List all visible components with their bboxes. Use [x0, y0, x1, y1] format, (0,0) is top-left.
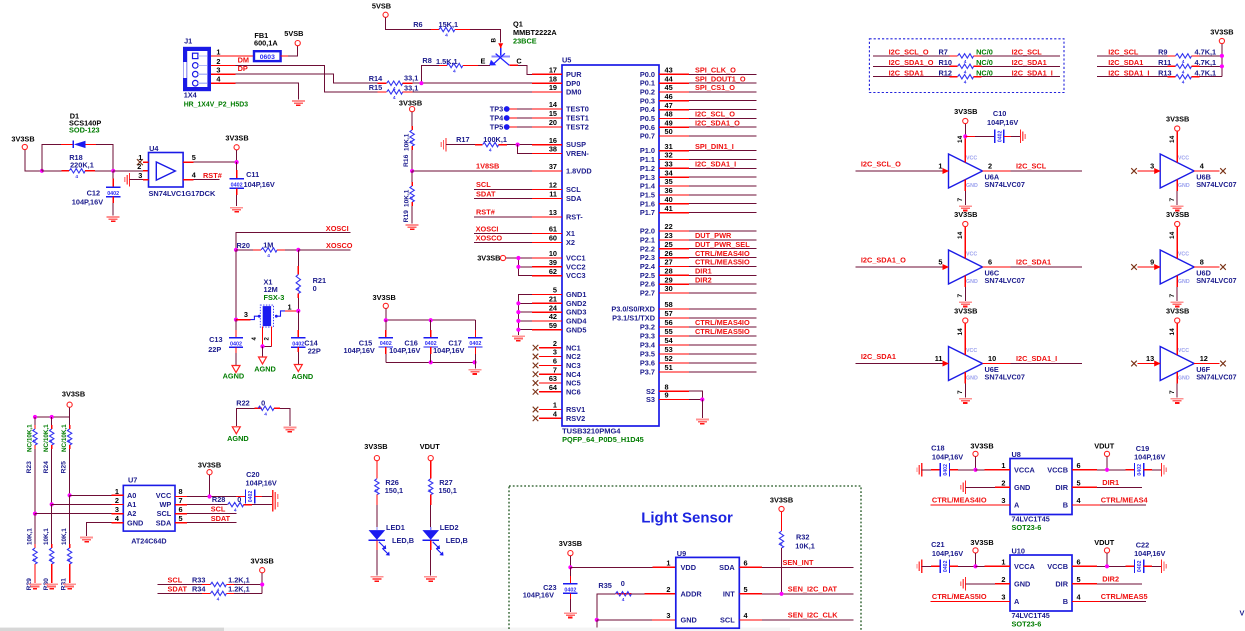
svg-text:R15: R15: [369, 83, 382, 92]
svg-text:R16: R16: [403, 154, 410, 167]
resistor R21: [297, 250, 299, 266]
svg-text:0402: 0402: [1137, 464, 1143, 476]
svg-text:CTRL/MEAS4IO: CTRL/MEAS4IO: [932, 496, 987, 505]
svg-text:R35: R35: [598, 581, 611, 590]
svg-text:LED1: LED1: [386, 523, 405, 532]
svg-text:11: 11: [549, 190, 557, 199]
wire crystal pin1: [285, 310, 298, 312]
junction C17 bottom: [473, 360, 477, 364]
junction R23: [33, 511, 37, 515]
svg-text:P3.0/S0/RXD: P3.0/S0/RXD: [611, 305, 655, 314]
svg-text:3: 3: [216, 66, 220, 75]
wire A1 row: [52, 503, 112, 505]
power 3V3SB at R33: [260, 568, 265, 573]
junction U7 VCC: [207, 494, 211, 498]
svg-text:10K,1: 10K,1: [61, 528, 68, 545]
svg-text:59: 59: [549, 321, 557, 330]
svg-text:3V3SB: 3V3SB: [770, 495, 793, 504]
svg-text:TEST0: TEST0: [566, 105, 589, 114]
svg-text:5: 5: [744, 585, 748, 594]
U6D VCC pin 14 wire: [1176, 227, 1178, 259]
power 3V3SB at C11: [234, 145, 239, 150]
wire 3V3SB to R16: [411, 112, 413, 126]
wire U8 A pin net CTRL/MEAS4IO: [930, 504, 1010, 506]
resistor R35: [617, 593, 632, 595]
svg-text:R34: R34: [192, 584, 206, 593]
wire TP5 to chip: [510, 126, 517, 128]
svg-text:0402: 0402: [1137, 560, 1143, 572]
svg-text:U5: U5: [562, 55, 571, 64]
svg-text:4: 4: [267, 253, 270, 259]
resistor R31: [69, 495, 71, 544]
wire R6 to Q1 base: [455, 29, 470, 31]
svg-text:11: 11: [935, 354, 943, 363]
svg-text:P1.6: P1.6: [640, 199, 655, 208]
svg-text:33: 33: [665, 160, 673, 169]
resistor R18: [42, 170, 62, 172]
svg-text:6: 6: [553, 357, 557, 366]
svg-text:C13: C13: [209, 335, 222, 344]
scrollbar thumb: [0, 628, 224, 631]
junction GND4: [516, 319, 520, 323]
svg-text:0402: 0402: [469, 341, 481, 347]
svg-text:0402: 0402: [564, 588, 576, 594]
svg-text:P0.1: P0.1: [640, 79, 655, 88]
svg-text:C11: C11: [246, 170, 259, 179]
svg-text:DIR2: DIR2: [695, 275, 712, 284]
ground at R31: [63, 583, 76, 585]
wire U9 VDD row: [570, 566, 652, 568]
svg-text:25: 25: [665, 240, 673, 249]
svg-text:23: 23: [665, 231, 673, 240]
svg-text:13: 13: [549, 208, 557, 217]
svg-text:TUSB3210PMG4: TUSB3210PMG4: [562, 426, 621, 435]
wire U10 GND pin: [966, 583, 996, 585]
resistor R23: [34, 417, 36, 425]
svg-text:3: 3: [553, 348, 557, 357]
svg-text:0603: 0603: [260, 54, 275, 61]
svg-text:TP3: TP3: [490, 104, 503, 113]
svg-text:P3.7: P3.7: [640, 368, 655, 377]
svg-text:5: 5: [192, 153, 196, 162]
svg-text:41: 41: [665, 204, 673, 213]
wire junction to VREN-: [518, 145, 532, 154]
svg-text:49: 49: [665, 118, 673, 127]
svg-text:P2.7: P2.7: [640, 289, 655, 298]
wire 3V3SB to R18 junction: [25, 150, 42, 171]
svg-text:10K,1: 10K,1: [43, 528, 50, 545]
no-connect NC4: [533, 371, 539, 377]
svg-text:2: 2: [115, 496, 119, 505]
svg-text:14: 14: [957, 135, 964, 143]
svg-text:VDUT: VDUT: [1094, 442, 1115, 451]
svg-text:1: 1: [553, 401, 557, 410]
resistor R10: [873, 65, 950, 67]
wire 5VSB to R6: [386, 18, 431, 30]
resistor R28: [175, 504, 187, 506]
svg-text:RSV1: RSV1: [566, 405, 585, 414]
wire ground to R17: [446, 144, 475, 146]
svg-text:3V3SB: 3V3SB: [1166, 115, 1189, 124]
IC U10 body: [1010, 555, 1072, 611]
resistor R8: [447, 63, 463, 67]
power 3V3SB at U6C: [963, 221, 968, 226]
svg-text:0402: 0402: [292, 341, 304, 347]
ground sideways at C19: [1161, 463, 1163, 476]
U6A VCC pin 14 wire: [964, 136, 966, 162]
wire U7 SCL row: [175, 513, 187, 515]
resistor R17: [483, 142, 499, 146]
capacitor C12: [106, 186, 120, 188]
svg-text:4.7K,1: 4.7K,1: [1195, 68, 1217, 77]
LED LED2: [430, 527, 432, 530]
junction VCC1: [516, 256, 520, 260]
wire U6A input: [855, 170, 942, 172]
svg-text:SN74LVC07: SN74LVC07: [1196, 372, 1236, 381]
svg-text:P1.7: P1.7: [640, 208, 655, 217]
svg-text:NC3: NC3: [566, 361, 581, 370]
svg-text:51: 51: [665, 363, 673, 372]
svg-text:15: 15: [549, 109, 557, 118]
svg-text:3V3SB: 3V3SB: [970, 538, 993, 547]
ground at U6D: [1171, 301, 1184, 303]
junction C16 bottom: [429, 360, 433, 364]
svg-text:4: 4: [428, 489, 434, 492]
resistor R32: [781, 512, 783, 531]
wire R16 to junction: [411, 146, 413, 150]
svg-text:10K,1: 10K,1: [403, 133, 410, 151]
svg-text:P0.3: P0.3: [640, 96, 655, 105]
wire LED2 to ground: [430, 540, 432, 550]
svg-text:63: 63: [549, 374, 557, 383]
capacitor C14: [297, 311, 299, 330]
svg-text:4: 4: [295, 288, 301, 291]
svg-text:I2C_SDA1_I: I2C_SDA1_I: [1016, 354, 1057, 363]
capacitor C18: [922, 469, 932, 471]
svg-text:VCC3: VCC3: [566, 271, 586, 280]
svg-text:RSV2: RSV2: [566, 414, 585, 423]
svg-text:I2C_SDA1_I: I2C_SDA1_I: [695, 160, 736, 169]
no-connect NC3: [533, 363, 539, 369]
svg-text:4: 4: [264, 411, 267, 417]
U6E VCC pin 14 wire: [964, 323, 966, 355]
wire A2 row: [35, 513, 111, 515]
junction GND2: [516, 301, 520, 305]
svg-text:26: 26: [665, 249, 673, 258]
svg-text:10: 10: [988, 354, 996, 363]
svg-text:150,1: 150,1: [439, 486, 457, 495]
junction R23 top: [33, 415, 37, 419]
U5 right pins wires and labels: [659, 73, 689, 75]
svg-text:C22: C22: [1136, 541, 1149, 550]
svg-text:R9: R9: [1158, 48, 1167, 57]
ground at GND pins: [512, 335, 525, 337]
wire U8 B net CTRL/MEAS4: [1072, 504, 1100, 506]
wire XOSCO to chip: [474, 242, 532, 244]
junction R20 left: [234, 248, 238, 252]
resistor R22: [236, 408, 254, 426]
svg-text:R22: R22: [236, 398, 249, 407]
svg-text:SDA: SDA: [719, 563, 735, 572]
ferrite bead FB1: [254, 51, 281, 61]
ground sideways at U8 GND: [965, 481, 967, 494]
wire XOSCI to chip: [474, 233, 532, 235]
svg-text:XOSCI: XOSCI: [326, 224, 349, 233]
junction GND5: [516, 328, 520, 332]
ground sideways at U10 GND: [965, 577, 967, 590]
wire crystal pin3: [236, 319, 250, 321]
junction R32 SEN_I2C_DAT: [779, 592, 783, 596]
op-amp buffer U6B: [1160, 154, 1194, 188]
svg-text:R33: R33: [192, 576, 205, 585]
svg-text:R14: R14: [369, 74, 383, 83]
resistor R34: [157, 592, 202, 594]
wire bypass cap rail bottom: [386, 361, 476, 363]
svg-text:SOD-123: SOD-123: [69, 125, 100, 134]
svg-text:I2C_SDA1_O: I2C_SDA1_O: [889, 58, 934, 67]
junction C15 top: [384, 318, 388, 322]
wire junction to U4 pin2: [113, 170, 143, 172]
ground at R22: [283, 427, 296, 429]
svg-text:P2.0: P2.0: [640, 227, 655, 236]
power 3V3SB at U6F: [1175, 318, 1180, 323]
svg-text:C12: C12: [87, 188, 100, 197]
svg-text:P2.1: P2.1: [640, 236, 655, 245]
svg-text:P3.6: P3.6: [640, 359, 655, 368]
svg-text:38: 38: [549, 145, 557, 154]
svg-text:0: 0: [621, 579, 625, 588]
svg-text:CTRL/MEAS5IO: CTRL/MEAS5IO: [932, 592, 987, 601]
U6F VCC pin 14 wire: [1176, 323, 1178, 355]
svg-text:GND: GND: [1178, 183, 1190, 189]
svg-text:14: 14: [1169, 328, 1176, 336]
resistor R12: [873, 76, 950, 78]
svg-text:28: 28: [665, 267, 673, 276]
svg-text:62: 62: [549, 267, 557, 276]
power 3V3SB at U6B: [1175, 126, 1180, 131]
svg-text:56: 56: [665, 318, 673, 327]
junction R20 right: [296, 248, 300, 252]
analog ground AGND crystal: [259, 357, 267, 364]
resistor R6: [439, 27, 455, 31]
svg-text:NC/0: NC/0: [976, 68, 993, 77]
svg-text:3: 3: [1150, 162, 1154, 171]
svg-text:40: 40: [665, 195, 673, 204]
svg-text:I2C_SDA1_O: I2C_SDA1_O: [695, 118, 740, 127]
svg-text:4: 4: [964, 80, 967, 86]
svg-text:GND5: GND5: [566, 325, 586, 334]
svg-text:VCC: VCC: [966, 156, 977, 162]
svg-text:SEN_I2C_CLK: SEN_I2C_CLK: [788, 611, 838, 620]
svg-text:35: 35: [665, 177, 673, 186]
svg-text:V: V: [1240, 609, 1245, 618]
svg-text:C18: C18: [931, 444, 944, 453]
svg-text:3: 3: [138, 171, 142, 180]
svg-text:4: 4: [445, 33, 448, 39]
junction R33: [260, 582, 264, 586]
ground sideways at C10: [1019, 130, 1021, 143]
wire TP3 to chip: [510, 108, 517, 110]
svg-text:HR_1X4V_P2_H5D3: HR_1X4V_P2_H5D3: [184, 102, 249, 109]
svg-text:C: C: [516, 56, 522, 65]
U6C GND pin 7 wire: [964, 276, 966, 288]
svg-text:60: 60: [549, 234, 557, 243]
svg-text:RST-: RST-: [566, 213, 583, 222]
svg-text:6: 6: [179, 505, 183, 514]
wire FB1 to 5VSB: [281, 55, 288, 57]
svg-text:I2C_SDA1: I2C_SDA1: [889, 68, 924, 77]
svg-text:10K,1: 10K,1: [403, 189, 410, 207]
power 3V3SB at U7 VCC: [207, 470, 212, 475]
svg-text:SPI_DIN1_I: SPI_DIN1_I: [695, 142, 734, 151]
capacitor C17: [474, 320, 476, 330]
svg-text:15K,1: 15K,1: [439, 20, 459, 29]
svg-text:4: 4: [779, 542, 785, 545]
resistor R16: [410, 130, 414, 146]
ground at C11: [230, 207, 243, 209]
svg-text:29: 29: [665, 275, 673, 284]
svg-text:4: 4: [1182, 80, 1185, 86]
test point TP4: [504, 115, 510, 121]
svg-text:31: 31: [665, 142, 673, 151]
svg-text:4: 4: [75, 174, 78, 180]
power 3V3SB at R26: [374, 456, 379, 461]
svg-text:U4: U4: [149, 144, 159, 153]
svg-text:I2C_SCL_O: I2C_SCL_O: [861, 160, 901, 169]
svg-text:U7: U7: [128, 476, 137, 485]
resistor R15: [387, 90, 403, 94]
svg-text:P2.2: P2.2: [640, 244, 655, 253]
svg-text:GND: GND: [966, 279, 978, 285]
wire U8 DIR net DIR1: [1072, 486, 1097, 488]
svg-text:6: 6: [744, 559, 748, 568]
svg-text:1: 1: [115, 487, 119, 496]
svg-text:NC/0: NC/0: [976, 48, 993, 57]
svg-text:0402: 0402: [230, 342, 242, 348]
wire U10 A pin net CTRL/MEAS5IO: [930, 600, 1010, 602]
capacitor C13: [235, 320, 237, 330]
svg-text:7: 7: [179, 496, 183, 505]
svg-text:50: 50: [665, 127, 673, 136]
svg-text:R17: R17: [456, 135, 469, 144]
power 3V3SB at R25: [67, 402, 72, 407]
ground at J1 pin4: [292, 100, 305, 102]
resistor R14: [387, 81, 403, 85]
U4 pin5 wire to 3V3SB: [183, 161, 193, 163]
wire U9 SCL net SEN_I2C_CLK: [739, 619, 762, 621]
junction S3: [700, 397, 704, 401]
svg-text:R10: R10: [939, 58, 952, 67]
svg-text:14: 14: [549, 100, 558, 109]
svg-text:R8: R8: [422, 56, 431, 65]
svg-text:8: 8: [1200, 258, 1204, 267]
wire U10 VCCB to VDUT: [1072, 565, 1097, 567]
svg-text:P2.5: P2.5: [640, 271, 655, 280]
svg-text:A1: A1: [127, 500, 136, 509]
svg-text:SDAT: SDAT: [211, 514, 231, 523]
svg-text:104P,16V: 104P,16V: [244, 180, 275, 189]
svg-text:VCC: VCC: [1178, 348, 1189, 354]
resistor R27: [430, 461, 432, 479]
capacitor C20: [236, 496, 246, 498]
svg-text:SN74LVC07: SN74LVC07: [985, 180, 1025, 189]
svg-text:CTRL/MEAS4IO: CTRL/MEAS4IO: [695, 318, 750, 327]
svg-text:VCCA: VCCA: [1014, 562, 1036, 571]
svg-text:GND3: GND3: [566, 308, 586, 317]
svg-text:1: 1: [138, 153, 142, 162]
resistor R13: [1097, 76, 1167, 78]
svg-text:B: B: [491, 38, 498, 43]
svg-text:VCC: VCC: [1178, 252, 1189, 258]
svg-text:R19: R19: [403, 210, 410, 223]
ground sideways at C18: [921, 463, 923, 476]
wire U10 B net CTRL/MEAS5: [1072, 600, 1100, 602]
wire U7 VCC row: [175, 496, 187, 498]
svg-text:SEN_INT: SEN_INT: [783, 558, 815, 567]
svg-text:DIR1: DIR1: [1102, 478, 1119, 487]
power 3V3SB at U9: [568, 551, 573, 556]
connector J1: [183, 47, 211, 91]
svg-text:3V3SB: 3V3SB: [1166, 307, 1189, 316]
svg-text:P3.1/S1/TXD: P3.1/S1/TXD: [612, 314, 655, 323]
power VDUT at U10: [1104, 548, 1109, 553]
svg-text:SPI_DOUT1_O: SPI_DOUT1_O: [695, 74, 746, 83]
capacitor C22: [1125, 565, 1134, 567]
junction R24: [50, 502, 54, 506]
wire SDA to chip: [474, 198, 532, 200]
wire pullup rail: [35, 416, 70, 418]
wire U9 SDA net SEN_INT: [739, 566, 762, 568]
ground at LED1: [370, 576, 383, 578]
wire U9 INT net SEN_I2C_DAT: [739, 593, 762, 595]
svg-text:VREN-: VREN-: [566, 149, 589, 158]
svg-text:SOT23-6: SOT23-6: [1012, 619, 1042, 628]
analog ground AGND C13: [232, 366, 240, 373]
svg-text:I2C_SCL: I2C_SCL: [1108, 48, 1139, 57]
no-connect RSV1: [533, 407, 539, 413]
svg-text:61: 61: [549, 225, 557, 234]
U6D GND pin 7 wire: [1176, 276, 1178, 288]
svg-text:19: 19: [549, 83, 557, 92]
svg-text:9: 9: [665, 391, 669, 400]
capacitor C16: [430, 320, 432, 330]
svg-text:AGND: AGND: [292, 372, 314, 381]
wire LED1 to ground: [376, 540, 378, 550]
svg-text:23BCE: 23BCE: [513, 37, 537, 46]
svg-text:RST#: RST#: [476, 208, 495, 217]
svg-text:1: 1: [938, 162, 942, 171]
J1 pin 3 circle: [193, 71, 199, 77]
svg-text:VCC: VCC: [156, 491, 172, 500]
svg-text:SCL: SCL: [476, 180, 491, 189]
wire U7 SDA row: [175, 522, 187, 524]
analog ground AGND R22: [232, 427, 240, 434]
no-connect NC5: [533, 380, 539, 386]
IC U4 body: [149, 153, 184, 188]
svg-text:100K,1: 100K,1: [483, 135, 507, 144]
wire U9 GND row: [597, 619, 652, 621]
svg-text:DUT_PWR: DUT_PWR: [695, 231, 732, 240]
svg-text:VCC: VCC: [1178, 156, 1189, 162]
svg-text:4.7K,1: 4.7K,1: [1195, 48, 1217, 57]
svg-text:104P,16V: 104P,16V: [987, 118, 1018, 127]
svg-text:P2.4: P2.4: [640, 262, 656, 271]
wire U8 GND pin: [966, 486, 996, 488]
svg-text:18: 18: [549, 74, 557, 83]
svg-text:VCCA: VCCA: [1014, 465, 1036, 474]
svg-text:3V3SB: 3V3SB: [954, 210, 977, 219]
wire U10 VCCA: [976, 565, 985, 567]
